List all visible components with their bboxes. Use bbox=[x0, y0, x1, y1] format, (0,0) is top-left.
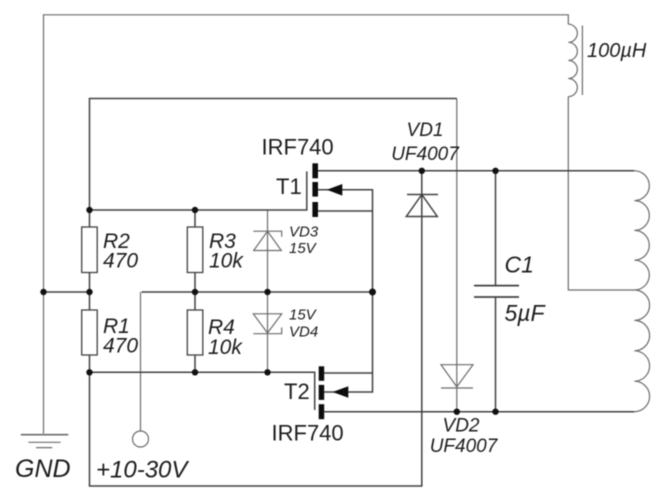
svg-text:GND: GND bbox=[15, 455, 71, 483]
svg-text:470: 470 bbox=[103, 250, 138, 273]
svg-text:C1: C1 bbox=[505, 252, 534, 278]
svg-text:UF4007: UF4007 bbox=[430, 436, 499, 457]
svg-text:VD1: VD1 bbox=[407, 120, 444, 141]
svg-text:UF4007: UF4007 bbox=[391, 144, 460, 165]
svg-text:10k: 10k bbox=[209, 250, 244, 273]
svg-text:T2: T2 bbox=[284, 379, 310, 404]
svg-text:470: 470 bbox=[103, 335, 138, 358]
svg-text:15V: 15V bbox=[289, 240, 318, 257]
svg-text:5µF: 5µF bbox=[505, 300, 547, 326]
svg-text:IRF740: IRF740 bbox=[272, 421, 344, 446]
svg-text:15V: 15V bbox=[289, 307, 318, 324]
svg-text:T1: T1 bbox=[276, 174, 302, 199]
svg-text:VD3: VD3 bbox=[289, 224, 319, 241]
svg-text:10k: 10k bbox=[208, 336, 243, 359]
svg-text:+10-30V: +10-30V bbox=[96, 457, 189, 484]
svg-text:VD2: VD2 bbox=[443, 416, 480, 437]
svg-text:VD4: VD4 bbox=[289, 324, 318, 341]
svg-text:100µH: 100µH bbox=[587, 40, 647, 62]
svg-text:IRF740: IRF740 bbox=[262, 135, 334, 160]
